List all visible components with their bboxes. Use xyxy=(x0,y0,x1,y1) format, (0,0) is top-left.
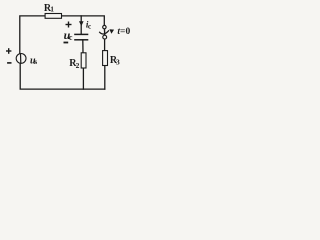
wire right below R3 xyxy=(104,66,106,89)
wire middle branch upper xyxy=(80,16,82,34)
svg-text:s: s xyxy=(34,57,37,66)
current arrow ic head xyxy=(79,21,84,26)
switch arrow head xyxy=(109,29,114,34)
wire through source xyxy=(20,53,22,63)
wire middle between capacitor and R2 xyxy=(82,40,84,52)
wire middle below R2 xyxy=(82,69,84,90)
resistor R3 box xyxy=(103,51,108,66)
wire right between switch and R3 xyxy=(104,39,106,50)
plus sign source xyxy=(6,48,11,54)
voltage source us circle xyxy=(16,54,26,64)
minus sign source xyxy=(7,62,11,64)
switch blade xyxy=(104,29,106,35)
plus sign capacitor xyxy=(66,22,72,28)
minus sign capacitor xyxy=(64,42,69,44)
switch top contact circle xyxy=(103,25,106,28)
svg-text:c: c xyxy=(69,33,73,42)
svg-text:3: 3 xyxy=(116,57,120,66)
svg-text:t=0: t=0 xyxy=(117,27,130,37)
background xyxy=(0,0,132,96)
switch bottom contact circle xyxy=(103,35,107,39)
wire top-left segment xyxy=(20,16,45,53)
wire left lower + bottom xyxy=(20,64,105,89)
resistor R1 box xyxy=(45,14,61,19)
wire top-right segment xyxy=(62,16,104,26)
resistor R2 box xyxy=(81,53,86,68)
svg-text:2: 2 xyxy=(76,61,80,70)
capacitor C plates xyxy=(74,34,88,39)
switch closing arc xyxy=(99,30,109,34)
svg-text:1: 1 xyxy=(50,4,54,13)
